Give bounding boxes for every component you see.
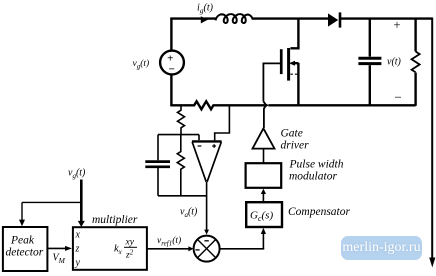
- svg-text:va(t): va(t): [180, 207, 198, 220]
- svg-text:multiplier: multiplier: [92, 214, 138, 226]
- svg-text:x: x: [75, 230, 81, 241]
- svg-text:−: −: [394, 90, 403, 105]
- svg-text:ig(t): ig(t): [197, 3, 214, 16]
- svg-text:modulator: modulator: [289, 171, 337, 183]
- svg-text:v(t): v(t): [387, 57, 402, 68]
- svg-text:VM: VM: [53, 253, 66, 266]
- svg-text:−: −: [168, 64, 175, 76]
- svg-text:detector: detector: [6, 247, 44, 259]
- svg-text:Gate: Gate: [281, 128, 303, 140]
- svg-text:vg(t): vg(t): [133, 58, 150, 71]
- svg-text:driver: driver: [281, 140, 310, 152]
- svg-text:z: z: [75, 244, 80, 255]
- svg-text:+: +: [393, 17, 402, 32]
- svg-text:Peak: Peak: [10, 235, 35, 247]
- svg-text:vg(t): vg(t): [68, 168, 86, 181]
- svg-text:vref1(t): vref1(t): [157, 235, 181, 248]
- svg-text:y: y: [75, 258, 81, 269]
- svg-text:Compensator: Compensator: [288, 206, 351, 218]
- svg-text:Gc(s): Gc(s): [250, 210, 273, 224]
- svg-text:xy: xy: [125, 238, 135, 248]
- svg-text:Pulse width: Pulse width: [289, 159, 344, 171]
